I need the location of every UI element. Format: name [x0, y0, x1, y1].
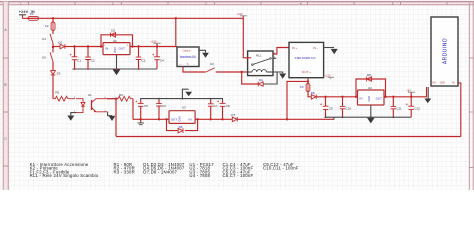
svg-text:U2: U2	[113, 39, 117, 43]
regulator U3	[169, 106, 195, 124]
module load box	[177, 47, 199, 67]
resistor R3	[118, 93, 133, 101]
power flag +18V	[151, 40, 161, 46]
svg-text:GND: GND	[368, 96, 371, 102]
wire U4 output row	[384, 87, 427, 97]
wire arduino A0 to signal bus	[458, 83, 461, 137]
wire U2 input row	[75, 46, 104, 48]
legend text block	[30, 162, 299, 178]
svg-text:+24V: +24V	[237, 13, 243, 16]
capacitor C1	[70, 47, 81, 70]
svg-text:C6: C6	[162, 104, 166, 108]
capacitor C12	[406, 97, 420, 117]
wire bus drop to relay COM	[242, 18, 244, 58]
wire U3 row	[133, 118, 334, 120]
ground relay coil arrow	[273, 72, 286, 79]
wire K3 to relay coil	[242, 71, 248, 73]
capacitor C11	[391, 97, 403, 117]
svg-text:IN -: IN -	[313, 46, 318, 50]
diode D7	[231, 113, 237, 122]
wire +24V bus	[23, 17, 244, 19]
svg-text:C10,C11 - 100nF: C10,C11 - 100nF	[263, 166, 299, 171]
ground U2 arrow	[113, 55, 121, 76]
svg-text:F2: F2	[45, 24, 49, 28]
capacitor C9	[320, 97, 333, 117]
wire U2 output row	[130, 46, 177, 48]
svg-text:R3: R3	[119, 93, 123, 97]
opto-coupler U1	[74, 93, 116, 113]
wire OUT+ to 12V row drop	[287, 81, 308, 119]
ground arduino arrow	[424, 87, 431, 103]
svg-text:RL1: RL1	[256, 53, 262, 57]
svg-text:GND: GND	[440, 82, 445, 84]
svg-text:F1: F1	[30, 12, 34, 16]
svg-text:Carico: Carico	[183, 49, 191, 53]
svg-text:U1: U1	[88, 93, 92, 97]
capacitor C10	[340, 97, 352, 117]
node +24V_IN port	[19, 10, 35, 18]
svg-text:C6,C7 - 100nF: C6,C7 - 100nF	[223, 173, 254, 178]
diode D5 bypass loop	[167, 119, 198, 133]
wire opto collector row	[107, 98, 118, 100]
wire OUT+ junction	[307, 78, 309, 82]
arduino U5	[431, 17, 458, 86]
switch K3	[206, 62, 242, 72]
svg-text:OUT: OUT	[119, 47, 126, 51]
diode D2 bypass loop	[101, 29, 133, 47]
wire relay NO to stepdown	[273, 48, 289, 55]
svg-text:C7: C7	[214, 104, 218, 108]
wire 12V row to U4	[317, 96, 358, 98]
svg-text:D8: D8	[367, 73, 371, 77]
svg-text:D7,D8 - 1N4007: D7,D8 - 1N4007	[143, 169, 177, 174]
power flag +12V	[325, 74, 334, 79]
svg-text:GND: GND	[179, 116, 182, 122]
svg-text:D2: D2	[111, 29, 115, 33]
svg-text:C1: C1	[77, 58, 81, 62]
stepdown converter module	[289, 42, 324, 77]
link 12V row to rail	[333, 117, 335, 119]
svg-text:D6: D6	[311, 91, 315, 95]
resistor R2	[53, 90, 75, 101]
svg-text:+8V: +8V	[406, 89, 411, 92]
svg-text:RL1 - Relè 24V Singolo Scambio: RL1 - Relè 24V Singolo Scambio	[30, 173, 99, 178]
svg-text:K2: K2	[42, 56, 46, 60]
svg-text:C9: C9	[329, 107, 333, 111]
svg-text:K3: K3	[210, 62, 214, 66]
svg-text:+18V: +18V	[151, 40, 157, 43]
fuse F3	[300, 81, 311, 96]
diode D1	[53, 41, 75, 49]
svg-text:D4: D4	[259, 78, 263, 82]
ground stepdown IN- arrow	[324, 48, 338, 55]
regulator U2	[103, 39, 130, 55]
ground arrow above U3	[182, 89, 192, 98]
regulator U4	[358, 86, 385, 105]
capacitor C4	[152, 47, 164, 70]
wire signal bottom bus to arduino	[116, 136, 461, 138]
svg-text:C5: C5	[144, 104, 148, 108]
relay RL1	[243, 51, 276, 76]
diode D3	[51, 71, 61, 99]
svg-text:C12: C12	[414, 107, 420, 111]
diode D8 bypass loop	[356, 73, 386, 97]
switch K1	[42, 31, 53, 48]
svg-text:GND: GND	[114, 47, 117, 53]
svg-text:C4: C4	[160, 58, 164, 62]
svg-text:IN +: IN +	[292, 46, 298, 50]
wire bus drop to module	[175, 18, 177, 47]
ground earth bars below C5	[137, 119, 144, 124]
capacitor C7	[208, 99, 218, 120]
switch K2	[42, 47, 53, 70]
svg-text:R3 - 330R: R3 - 330R	[114, 169, 135, 174]
capacitor C5	[135, 100, 148, 119]
ground arrow right of module	[199, 50, 209, 57]
svg-text:D7: D7	[231, 113, 235, 117]
capacitor C3	[136, 47, 146, 70]
svg-text:C3: C3	[141, 58, 145, 62]
svg-text:U3: U3	[182, 106, 186, 110]
svg-text:C8: C8	[226, 104, 230, 108]
diode D4 flyback loop	[242, 72, 277, 86]
svg-text:D1: D1	[58, 41, 62, 45]
sheet border frame	[0, 1, 474, 190]
ground rail U2 stage	[73, 68, 158, 70]
svg-text:OUT: OUT	[376, 96, 383, 100]
power flag +8V	[406, 89, 415, 96]
svg-text:IN: IN	[105, 47, 108, 51]
wire signal drop to bottom bus	[115, 99, 117, 137]
ground U4 arrow	[367, 105, 375, 123]
ground opto pin3 arrow	[108, 112, 116, 121]
svg-text:D5: D5	[179, 125, 183, 129]
ground rail U4 stage	[325, 116, 412, 118]
svg-text:OUT +: OUT +	[302, 70, 311, 74]
power flag +24V	[237, 13, 247, 18]
svg-text:STEP DOWN 12V: STEP DOWN 12V	[295, 56, 316, 60]
capacitor C8	[217, 100, 230, 119]
ground dark top line U3 stage	[141, 99, 223, 101]
sheet background	[0, 0, 474, 190]
svg-text:R2: R2	[55, 90, 59, 94]
diode D6	[311, 91, 316, 99]
svg-text:F3: F3	[300, 85, 304, 89]
svg-text:ARDUINO: ARDUINO	[442, 38, 448, 64]
svg-text:U4: U4	[368, 86, 372, 90]
svg-text:IN: IN	[189, 117, 192, 121]
svg-text:D3: D3	[57, 72, 61, 76]
svg-text:B: B	[4, 83, 6, 87]
svg-text:U4 - 7808: U4 - 7808	[189, 173, 210, 178]
fuse F1	[28, 12, 39, 20]
svg-text:OUT: OUT	[171, 117, 178, 121]
capacitor C6	[156, 99, 166, 120]
svg-text:VIN: VIN	[432, 82, 436, 84]
fuse F2	[45, 18, 55, 30]
capacitor C2	[85, 47, 95, 70]
svg-text:IN: IN	[359, 96, 362, 100]
svg-text:C11: C11	[396, 107, 402, 111]
wire module to K3	[183, 67, 206, 73]
svg-text:K1: K1	[42, 37, 46, 41]
svg-text:C2: C2	[91, 58, 95, 62]
svg-text:C10: C10	[345, 107, 351, 111]
wire R3 drop to 5V row	[132, 99, 134, 120]
ground opto pin2 arrow	[67, 113, 76, 121]
